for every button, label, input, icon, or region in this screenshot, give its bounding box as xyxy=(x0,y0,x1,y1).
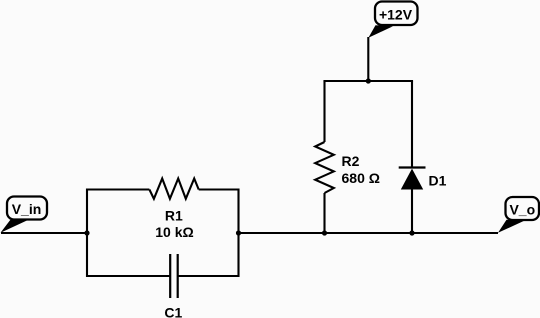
resistor R1 xyxy=(149,179,198,241)
net label +12V xyxy=(368,2,417,38)
node A xyxy=(84,230,89,235)
svg-text:C1: C1 xyxy=(164,305,182,318)
capacitor C1 xyxy=(164,254,182,318)
wire xyxy=(323,193,325,233)
svg-text:R2: R2 xyxy=(342,153,360,169)
wire xyxy=(323,80,413,82)
node B xyxy=(236,230,241,235)
wire xyxy=(323,81,325,142)
svg-text:+12V: +12V xyxy=(379,7,413,23)
wire xyxy=(411,190,413,234)
node D xyxy=(409,230,414,235)
wire xyxy=(87,188,149,190)
svg-text:D1: D1 xyxy=(429,173,447,189)
wire xyxy=(411,81,413,168)
node C xyxy=(322,230,327,235)
svg-text:10 kΩ: 10 kΩ xyxy=(155,224,193,240)
svg-text:R1: R1 xyxy=(165,208,183,224)
node rail junction xyxy=(366,78,371,83)
svg-text:V_o: V_o xyxy=(509,202,535,218)
svg-text:V_in: V_in xyxy=(12,201,42,217)
wire xyxy=(178,275,239,277)
resistor R2 xyxy=(315,142,380,193)
diode D1 xyxy=(399,168,447,190)
net label V_o xyxy=(498,197,539,233)
wire xyxy=(239,232,499,234)
svg-text:680 Ω: 680 Ω xyxy=(342,170,380,186)
wire xyxy=(1,232,87,234)
wire xyxy=(87,275,170,277)
wire xyxy=(86,188,88,277)
wire xyxy=(367,37,369,81)
wire xyxy=(237,188,239,277)
net label V_in xyxy=(1,197,48,233)
wire xyxy=(199,188,239,190)
